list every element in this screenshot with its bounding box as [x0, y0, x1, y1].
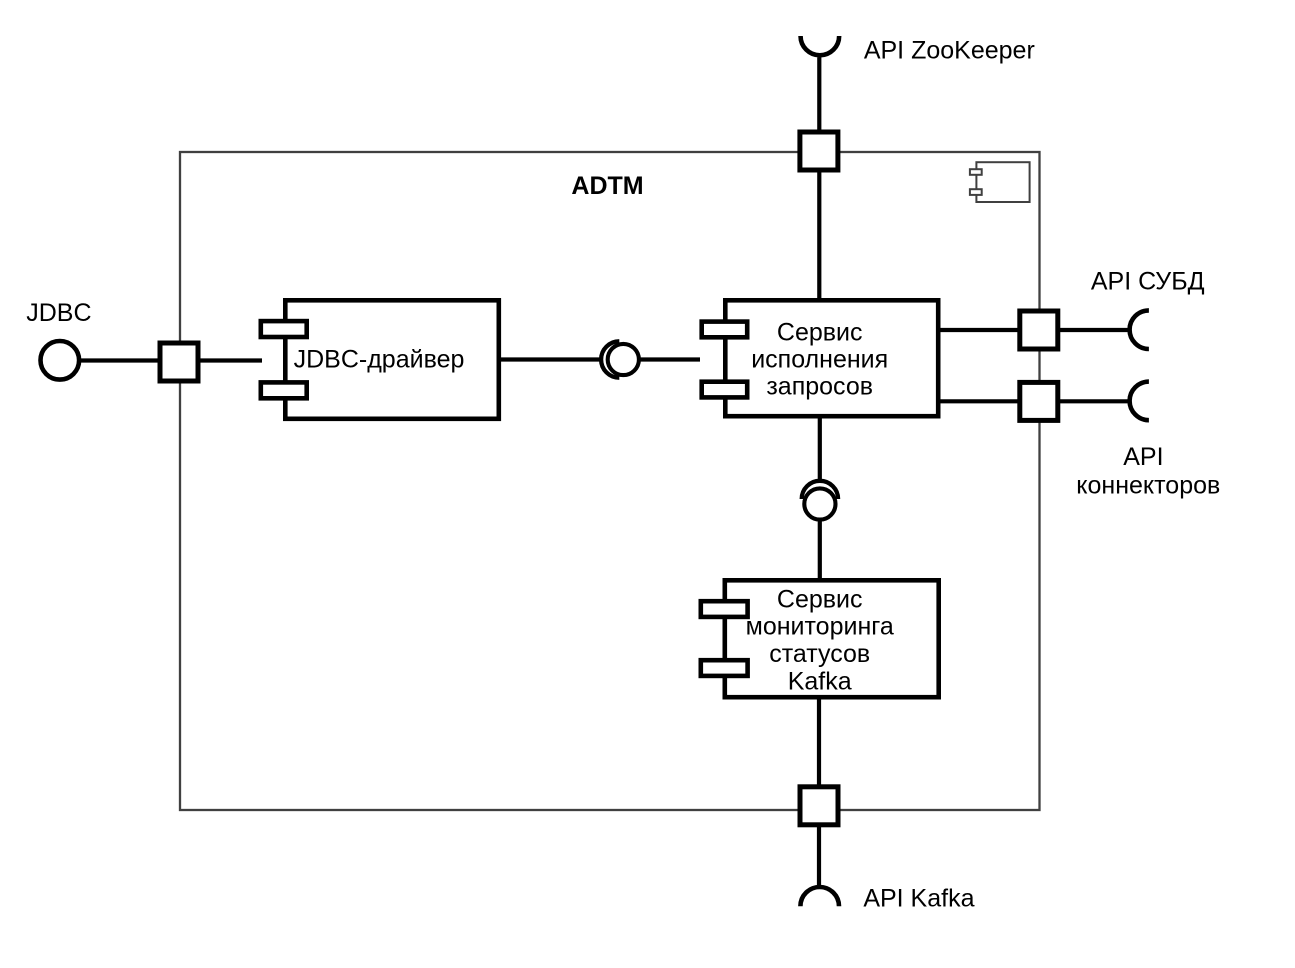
assembly ball 2	[804, 488, 835, 519]
query service label	[751, 318, 888, 400]
component monitoring service box	[725, 580, 939, 697]
right socket 2 (API connectors)	[1130, 382, 1149, 421]
wire query service to assembly socket 2	[818, 416, 822, 479]
monitoring service tab 2	[701, 660, 748, 676]
wire top port to query service	[817, 135, 821, 300]
right socket 1 (API SUBD)	[1130, 310, 1149, 349]
API connectors label	[1076, 443, 1220, 500]
port on left boundary	[160, 343, 198, 381]
top socket (API ZooKeeper)	[801, 36, 840, 55]
port on right boundary 2	[1020, 382, 1058, 420]
component query service box	[725, 300, 938, 416]
wire top socket to top port	[817, 57, 821, 150]
bottom socket (API Kafka)	[800, 887, 839, 906]
monitoring service label	[746, 585, 894, 695]
wire left port to JDBC-driver	[196, 358, 262, 362]
JDBC-driver tab 2	[261, 382, 307, 398]
svg-text:Kafka: Kafka	[788, 668, 852, 696]
port on top boundary	[800, 132, 838, 170]
assembly socket arc 1	[601, 341, 619, 377]
query service tab 1	[702, 322, 748, 338]
svg-text:Сервис: Сервис	[777, 585, 863, 613]
svg-text:API: API	[1123, 443, 1163, 471]
wire ball 1 to query service tabs	[639, 357, 700, 361]
monitoring service tab 1	[701, 601, 748, 617]
svg-text:JDBC: JDBC	[26, 299, 91, 327]
assembly socket arc 2	[802, 481, 838, 499]
svg-text:API Kafka: API Kafka	[863, 885, 974, 913]
svg-text:мониторинга: мониторинга	[746, 613, 894, 641]
component JDBC-driver box	[285, 300, 499, 419]
query service tab 2	[702, 382, 748, 398]
svg-text:статусов: статусов	[769, 640, 870, 668]
wire ball 2 to monitoring service	[818, 518, 822, 580]
svg-text:API СУБД: API СУБД	[1091, 268, 1205, 296]
svg-text:Сервис: Сервис	[777, 318, 863, 346]
port on bottom boundary	[800, 787, 838, 825]
JDBC provided-interface ball	[41, 341, 80, 380]
UML component icon	[970, 162, 1030, 202]
svg-text:API ZooKeeper: API ZooKeeper	[864, 36, 1035, 64]
ADTM container boundary	[180, 152, 1040, 810]
svg-text:запросов: запросов	[766, 373, 873, 401]
svg-text:JDBC-драйвер: JDBC-драйвер	[294, 346, 465, 374]
wire monitoring service to bottom port	[817, 697, 821, 790]
JDBC-driver tab 1	[261, 321, 307, 337]
wire JDBC ball to left port	[60, 358, 162, 362]
wire query service to right port 1	[938, 328, 1128, 332]
wire JDBC-driver to assembly socket 1	[499, 357, 600, 361]
svg-text:ADTM: ADTM	[571, 172, 643, 200]
port on right boundary 1	[1020, 311, 1058, 349]
wire query service to right port 2	[938, 399, 1128, 403]
wire bottom port to bottom socket	[817, 824, 821, 887]
svg-text:исполнения: исполнения	[751, 346, 888, 374]
svg-text:коннекторов: коннекторов	[1076, 471, 1220, 499]
assembly ball 1	[608, 344, 639, 375]
